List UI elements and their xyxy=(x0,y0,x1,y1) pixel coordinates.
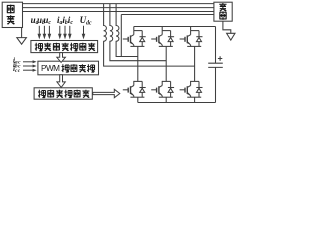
svg-text:PWM: PWM xyxy=(41,64,60,73)
